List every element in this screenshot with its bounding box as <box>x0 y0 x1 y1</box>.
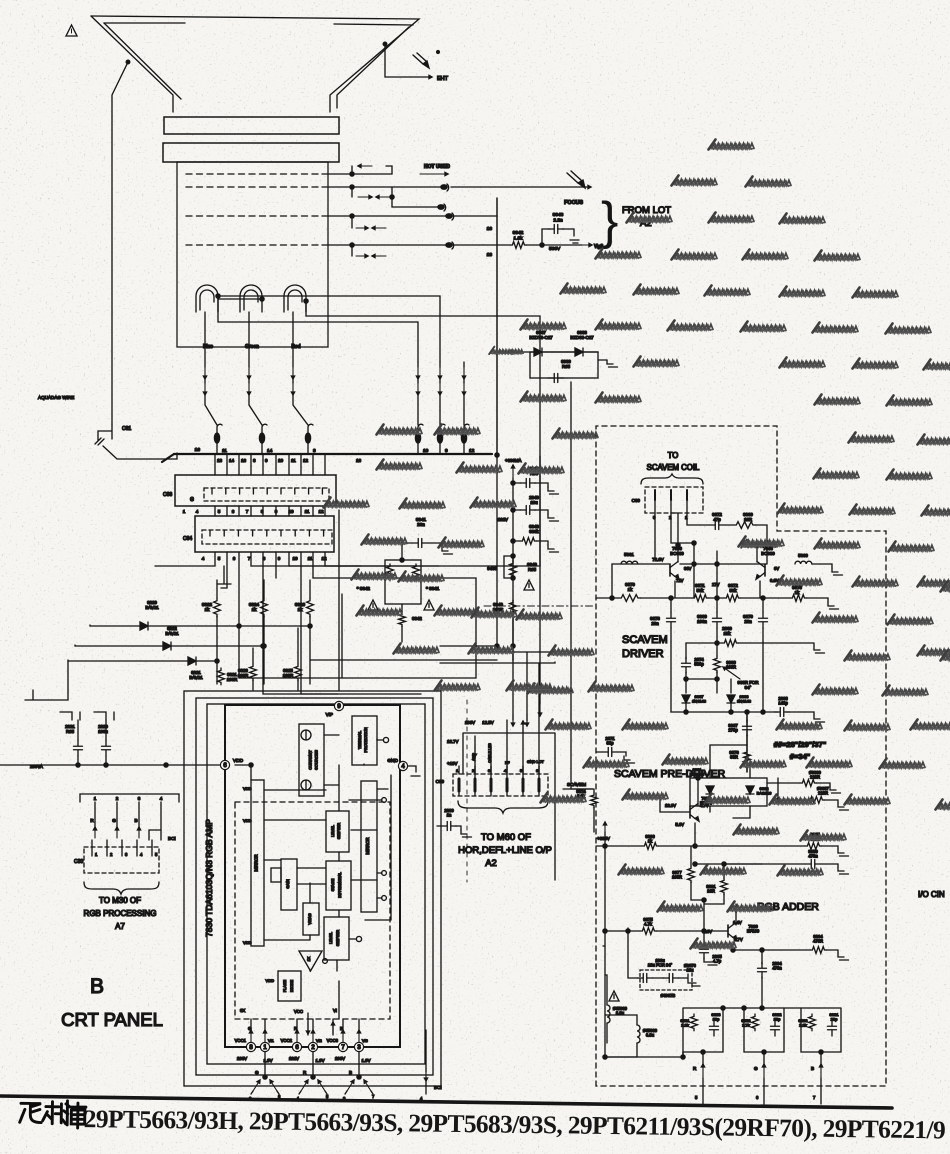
svg-text:FOCUS: FOCUS <box>564 200 583 206</box>
IC pin 2 <box>308 1042 317 1051</box>
C89 wiring <box>655 513 700 560</box>
svg-text:470n: 470n <box>772 966 782 971</box>
svg-text:33p: 33p <box>607 741 615 746</box>
op-amp 1X buffer <box>299 951 327 971</box>
socket heavy bus <box>162 454 492 462</box>
svg-text:100R: 100R <box>227 677 238 682</box>
svg-text:12.5V: 12.5V <box>482 720 494 725</box>
svg-text:3943: 3943 <box>553 212 564 218</box>
svg-text:VOC3: VOC3 <box>327 1038 339 1043</box>
svg-text:102V: 102V <box>498 517 508 522</box>
svg-text:3842: 3842 <box>412 616 422 621</box>
svg-text:SOURCES: SOURCES <box>314 750 319 770</box>
svg-text:200VA: 200VA <box>30 764 43 769</box>
resistor 3842 lower <box>399 604 423 642</box>
warning triangle right of spark box <box>424 600 434 610</box>
heater coil blue <box>196 285 218 312</box>
svg-text:11: 11 <box>305 509 310 514</box>
zener 6688 BZD88-C27 <box>567 330 598 356</box>
RC bus ties <box>721 1006 801 1010</box>
capacitor group 10u FOR 34 <box>626 928 700 998</box>
output B <box>811 1064 823 1104</box>
IC pin voltages <box>237 1056 371 1063</box>
C86 pin number row <box>183 509 324 514</box>
svg-text:9: 9 <box>278 556 281 561</box>
svg-text:C89: C89 <box>632 498 641 503</box>
svg-text:4.7p: 4.7p <box>713 959 722 964</box>
svg-text:100R: 100R <box>726 665 736 670</box>
svg-text:DRIVER: DRIVER <box>622 648 664 660</box>
svg-text:1N4148: 1N4148 <box>737 699 752 704</box>
scavem top bus <box>612 543 767 598</box>
svg-text:STAGE: STAGE <box>331 878 335 891</box>
svg-text:}: } <box>601 192 618 250</box>
svg-text:9: 9 <box>265 458 268 463</box>
alignment dash-dot line <box>484 605 594 607</box>
svg-text:1N4148: 1N4148 <box>692 699 707 704</box>
svg-text:CURRENT: CURRENT <box>308 750 313 770</box>
svg-text:1k: 1k <box>628 587 633 592</box>
svg-text:+18V: +18V <box>447 761 457 766</box>
svg-text:BAS216: BAS216 <box>757 791 772 796</box>
svg-text:3X: 3X <box>240 1008 245 1013</box>
svg-text:VI1: VI1 <box>268 1039 274 1043</box>
block gain mirror <box>271 859 297 910</box>
grid electrode dashed lines <box>186 174 322 245</box>
svg-text:SCAVEM: SCAVEM <box>567 782 586 787</box>
svg-text:100n: 100n <box>98 729 108 734</box>
socket pin 8 <box>305 424 316 454</box>
svg-text:+300V: +300V <box>597 836 610 841</box>
node bus joins <box>495 453 499 646</box>
svg-text:11: 11 <box>291 458 296 463</box>
svg-text:220R: 220R <box>810 775 820 780</box>
spark gap box 3842/3841 <box>357 543 440 604</box>
output G <box>754 1064 766 1104</box>
spark gap G output <box>249 1052 281 1101</box>
inductor 45660 6.8u <box>603 1015 658 1059</box>
transistor 7668 BC639 <box>756 543 779 598</box>
svg-text:10: 10 <box>423 448 429 454</box>
diode 6667 1N4148 <box>682 694 707 712</box>
svg-text:7830 TDA6103Q/N3 RGB AMP: 7830 TDA6103Q/N3 RGB AMP <box>204 819 214 937</box>
bottom model text <box>20 1100 946 1144</box>
resistor 3826 1k <box>295 580 314 684</box>
inductor 5660 <box>795 553 843 575</box>
svg-text:72V: 72V <box>676 578 684 583</box>
RC network R channel <box>681 1008 723 1064</box>
svg-text:FROM LOT: FROM LOT <box>622 205 671 216</box>
IC internal wires <box>235 735 391 1035</box>
scavem feed wire from focus divider <box>571 382 593 789</box>
SCAVEM DRIVER label <box>622 634 668 660</box>
svg-text:SHIFTER: SHIFTER <box>337 823 341 840</box>
capacitor 2665 4.7p <box>700 931 723 965</box>
svg-text:5.6V: 5.6V <box>675 822 684 827</box>
svg-text:1: 1 <box>183 509 186 514</box>
block level shifter upper <box>326 811 349 852</box>
resistor 3825 100R <box>283 628 302 690</box>
resistor 3681 10R <box>706 862 727 904</box>
connector C80 <box>436 743 548 796</box>
resistor 2669 15k <box>686 626 825 653</box>
capacitor 3672 47p <box>700 512 733 530</box>
capacitor 3848 R65 <box>511 466 559 494</box>
svg-text:1k: 1k <box>298 607 304 612</box>
IC pin 8 <box>246 1042 255 1051</box>
g3 contact <box>392 197 446 211</box>
svg-text:6: 6 <box>233 556 236 561</box>
svg-text:R65: R65 <box>562 364 571 369</box>
svg-text:2.2k: 2.2k <box>681 1023 689 1028</box>
svg-text:13.7V: 13.7V <box>447 739 459 744</box>
svg-text:BCI: BCI <box>168 836 176 841</box>
svg-text:VOC2: VOC2 <box>281 1038 293 1043</box>
block mirror left <box>251 780 264 946</box>
block mirror right <box>361 781 377 912</box>
svg-text:DIFFERENTIAL: DIFFERENTIAL <box>338 872 342 898</box>
svg-text:6.8u: 6.8u <box>646 1033 655 1038</box>
warning triangle scavem <box>609 991 619 1001</box>
focus/g2 vertical feed wire <box>496 198 498 455</box>
svg-text:VDD: VDD <box>266 978 275 983</box>
svg-text:7: 7 <box>248 556 251 561</box>
svg-text:A7: A7 <box>115 922 125 931</box>
socket pin 9 <box>437 424 448 454</box>
930R FOR 34 note arrow <box>723 667 758 690</box>
resistor 3821 100R <box>218 668 238 685</box>
resistor 3824 1k <box>249 580 268 684</box>
svg-text:THERMAL: THERMAL <box>358 731 362 749</box>
warning triangle top-left <box>66 25 77 36</box>
socket pin 14 <box>259 424 272 454</box>
C84 pin number row <box>202 556 327 561</box>
svg-text:1.9V: 1.9V <box>361 1058 370 1063</box>
svg-text:100R: 100R <box>283 673 294 678</box>
svg-text:1.4V: 1.4V <box>733 920 742 925</box>
svg-text:270p: 270p <box>728 728 738 733</box>
svg-text:GAIN: GAIN <box>286 879 290 889</box>
svg-text:4.7k: 4.7k <box>644 922 653 927</box>
focus contact and wire <box>441 184 591 206</box>
capacitor 2674 560p <box>682 643 705 679</box>
svg-text:LEVEL: LEVEL <box>329 932 333 944</box>
svg-text:VBIAS: VBIAS <box>308 913 312 925</box>
warning triangle left of spark box <box>368 600 378 610</box>
capacitor 3659 470n <box>693 849 849 874</box>
svg-text:16: 16 <box>195 447 201 453</box>
+200mA feed arrow <box>505 458 522 660</box>
svg-text:4: 4 <box>202 556 205 561</box>
svg-text:I/O CIN: I/O CIN <box>918 890 945 899</box>
svg-text:G: G <box>255 1070 259 1075</box>
svg-text:500V: 500V <box>549 246 561 252</box>
resistor 3664 470R <box>731 934 849 960</box>
RC network B channel <box>799 1008 841 1064</box>
inductor 45669 8.8u <box>605 975 628 1043</box>
svg-text:12: 12 <box>318 509 324 514</box>
resistor 3822 1k <box>202 580 221 684</box>
svg-text:10: 10 <box>278 458 284 463</box>
TO M30 OF RGB PROCESSING A7 <box>84 896 157 931</box>
svg-text:VI3: VI3 <box>362 1039 368 1043</box>
svg-text:+300MA: +300MA <box>505 458 522 463</box>
svg-text:VDD: VDD <box>243 818 252 823</box>
svg-text:10p: 10p <box>774 1017 781 1022</box>
block vbias <box>303 903 319 935</box>
transistor 7660 BF199 <box>702 904 760 950</box>
capacitor 3670 23n <box>743 598 767 642</box>
svg-text:B: B <box>134 818 137 823</box>
svg-text:2.2n: 2.2n <box>553 217 563 223</box>
svg-text:BZD78-C27: BZD78-C27 <box>529 335 553 340</box>
svg-text:SHIFTER: SHIFTER <box>336 930 340 947</box>
svg-text:BC639: BC639 <box>670 551 684 556</box>
extra feeder vertical <box>497 652 542 716</box>
svg-text:TO M30 OF: TO M30 OF <box>99 896 141 905</box>
svg-text:3942: 3942 <box>513 230 524 236</box>
C30 header bracket <box>80 794 179 802</box>
svg-text:VDD: VDD <box>233 758 244 764</box>
svg-text:BC639: BC639 <box>761 551 775 556</box>
resistor 3666 1k <box>642 834 659 849</box>
resistor 3668 100R <box>714 643 737 679</box>
svg-text:SCAVEM: SCAVEM <box>622 634 668 646</box>
svg-text:VIP: VIP <box>326 712 333 717</box>
warning triangle mid column <box>524 580 534 590</box>
svg-text:33R: 33R <box>730 755 738 760</box>
capacitor 2668 140p <box>774 696 790 717</box>
svg-text:140p: 140p <box>778 701 788 706</box>
capacitor 2840 10u <box>511 495 559 521</box>
resistor 3940 100R <box>493 600 517 617</box>
svg-text:* 3842: * 3842 <box>357 586 371 591</box>
output R <box>693 1064 705 1104</box>
diode 6821 BAV21 <box>68 657 219 680</box>
connector C89 <box>632 487 703 520</box>
svg-text:16: 16 <box>241 458 247 463</box>
output routing loop outer <box>184 691 441 1086</box>
svg-text:23p: 23p <box>831 1017 838 1022</box>
svg-text:DIODE: DIODE <box>290 980 294 992</box>
grid wire g4 <box>322 213 497 230</box>
spark gap B output <box>343 1052 375 1101</box>
connector C86 <box>163 475 336 506</box>
svg-text:Green: Green <box>245 344 259 350</box>
svg-text:12: 12 <box>321 556 327 561</box>
scavem internal verticals <box>671 513 762 931</box>
block flash diode <box>266 971 301 1001</box>
resistor 3942 1.8k <box>497 230 561 252</box>
socket drop wires with pin numbers <box>215 455 362 475</box>
resistor 3840 R65 loop <box>487 554 537 580</box>
grid wire g5 (500V) <box>322 242 497 258</box>
resistor 3667 220R second <box>776 778 849 810</box>
svg-text:* 3841: * 3841 <box>426 586 440 591</box>
svg-text:BAV21: BAV21 <box>145 605 159 610</box>
IC 7830 TDA6103Q/N3 RGB AMP body <box>225 705 400 1047</box>
pin 6 VDD <box>220 758 243 770</box>
svg-text:LEVEL: LEVEL <box>331 825 335 837</box>
SCAVEM module dashed outline <box>596 426 886 1086</box>
socket interconnect verticals <box>155 506 325 662</box>
IC pin 3 <box>354 1042 363 1051</box>
svg-text:B: B <box>811 1066 814 1071</box>
svg-text:2: 2 <box>116 796 119 801</box>
svg-text:4: 4 <box>160 796 163 801</box>
grid wire g2 focus line <box>322 185 441 199</box>
svg-text:23n: 23n <box>651 621 659 626</box>
pre-driver vertical left rail <box>603 946 685 1059</box>
svg-text:10p: 10p <box>713 1017 720 1022</box>
flashover bolt at focus <box>567 171 585 188</box>
aquadag ground spring C81 <box>95 425 177 459</box>
svg-text:PF: PF <box>505 761 510 765</box>
svg-text:HOR,DEFL+LINE O/P: HOR,DEFL+LINE O/P <box>458 845 552 856</box>
IC pin stub arrows <box>249 1019 360 1042</box>
svg-text:8: 8 <box>253 458 256 463</box>
cathode lead wire x205 <box>203 312 217 425</box>
resistor 3673 1k <box>790 585 807 601</box>
resistor 3671 56k <box>692 583 709 601</box>
svg-text:VI: VI <box>333 1008 337 1013</box>
svg-text:1.8k: 1.8k <box>513 235 523 241</box>
scavem mid bus <box>684 677 719 693</box>
svg-text:#=34": #=34" <box>790 752 811 761</box>
inductor 5661 <box>621 552 638 564</box>
C80 brace <box>458 801 548 813</box>
heater coil green <box>240 285 262 312</box>
BCI output arrow <box>420 1030 442 1101</box>
svg-text:HOT USED: HOT USED <box>424 164 450 170</box>
resistor 3846 330k <box>511 524 559 552</box>
svg-text:12: 12 <box>469 448 475 454</box>
heater feed drop x418 <box>416 362 419 425</box>
svg-text:B: B <box>349 1070 352 1075</box>
svg-text:7: 7 <box>246 509 249 514</box>
svg-text:TO M60 OF: TO M60 OF <box>481 832 531 843</box>
svg-text:72.6V: 72.6V <box>652 557 664 562</box>
svg-text:C84: C84 <box>183 536 192 542</box>
Vg2 arrow <box>542 243 603 250</box>
resistor 3665 2.2k <box>695 832 849 856</box>
CRT neck/grid box <box>177 162 328 347</box>
svg-text:BAV21: BAV21 <box>189 675 203 680</box>
svg-text:18: 18 <box>487 226 493 232</box>
connector C84 <box>183 516 334 552</box>
svg-text:13.9V: 13.9V <box>665 803 676 808</box>
svg-text:10R: 10R <box>707 889 715 894</box>
cathode lead wire x249 <box>247 312 262 425</box>
svg-text:47p: 47p <box>713 517 721 522</box>
resistor 3823 100R <box>238 648 257 690</box>
svg-text:B: B <box>90 975 104 998</box>
capacitor 2689 1n <box>437 808 472 837</box>
svg-text:5: 5 <box>218 509 221 514</box>
svg-text:G: G <box>754 1066 758 1071</box>
svg-text:BAV21: BAV21 <box>165 631 179 636</box>
svg-text:SCAVEM COIL: SCAVEM COIL <box>647 463 700 472</box>
capacitor 3673 23n <box>650 598 675 642</box>
svg-text:470R: 470R <box>813 939 823 944</box>
svg-text:1X: 1X <box>307 956 311 961</box>
VDD supply rail <box>0 763 220 769</box>
svg-text:VDD: VDD <box>243 786 252 791</box>
svg-text:BZD88-C27: BZD88-C27 <box>570 335 594 340</box>
svg-text:C86: C86 <box>163 492 172 498</box>
deflection yoke band 2 <box>163 143 339 162</box>
svg-text:11: 11 <box>222 448 227 454</box>
IC pin 1 <box>260 1042 269 1051</box>
svg-text:9480: 9480 <box>487 566 497 571</box>
svg-text:13: 13 <box>487 252 493 258</box>
B CRT PANEL title <box>61 975 163 1030</box>
crease dashed vertical <box>466 700 468 882</box>
svg-text:R65: R65 <box>66 729 75 734</box>
diode 6661 BAS216 <box>690 767 767 806</box>
svg-text:10u FOR 34°: 10u FOR 34° <box>648 963 673 968</box>
svg-text:11: 11 <box>308 556 313 561</box>
diode 6668 1N4148 <box>727 679 752 712</box>
capacitor 3669 100n <box>697 598 721 642</box>
svg-text:1n: 1n <box>447 813 452 818</box>
svg-text:14: 14 <box>267 448 273 454</box>
transistor 7659 BF370 <box>660 776 713 833</box>
socket pin 10 <box>415 424 428 454</box>
svg-text:100R: 100R <box>672 875 682 880</box>
EHT flashover bolt <box>413 51 439 68</box>
svg-text:CRT PANEL: CRT PANEL <box>61 1009 163 1030</box>
pre-driver bus 846 <box>596 833 697 946</box>
svg-text:56k: 56k <box>729 588 737 593</box>
IC pin 6 <box>292 1042 301 1051</box>
svg-text:MIRROR: MIRROR <box>365 838 370 855</box>
svg-text:1k: 1k <box>795 590 800 595</box>
svg-text:13: 13 <box>217 458 223 463</box>
bottom heavy rule <box>0 1096 892 1108</box>
svg-text:GND LOT: GND LOT <box>527 760 545 764</box>
svg-text:5661: 5661 <box>624 552 634 557</box>
svg-text:2.2k: 2.2k <box>799 1023 807 1028</box>
wire from diodes to rail <box>25 625 90 700</box>
zener 6687 BZD78-C27 <box>512 330 567 356</box>
svg-text:EHT: EHT <box>437 76 449 82</box>
svg-text:3: 3 <box>138 796 141 801</box>
svg-text:10: 10 <box>292 556 298 561</box>
svg-text:2.7k: 2.7k <box>742 1023 750 1028</box>
svg-text:#4967B: #4967B <box>661 993 676 998</box>
svg-text:8: 8 <box>313 448 316 454</box>
heater coil red <box>284 285 306 312</box>
svg-text:VCC: VCC <box>294 1009 303 1014</box>
resistor 3676 33R <box>729 745 750 772</box>
svg-text:190V: 190V <box>465 720 475 725</box>
svg-text:16: 16 <box>356 458 362 463</box>
diode 6662 BAS216 <box>746 786 772 796</box>
resistor 3939 box <box>530 352 618 383</box>
svg-text:23n: 23n <box>417 522 425 527</box>
svg-text:C80: C80 <box>436 779 445 784</box>
C30 brace <box>84 882 159 894</box>
grid wire g1 (HOT USED) <box>322 164 450 176</box>
block current sources <box>299 724 324 796</box>
heater supply wires <box>216 294 540 664</box>
capacitor 2620 100n <box>94 712 114 765</box>
diode 6820 BAV21 <box>90 600 312 630</box>
aquadag wire <box>38 60 130 425</box>
spark gap R output <box>297 1052 329 1101</box>
pin 9 VIP <box>326 510 344 717</box>
